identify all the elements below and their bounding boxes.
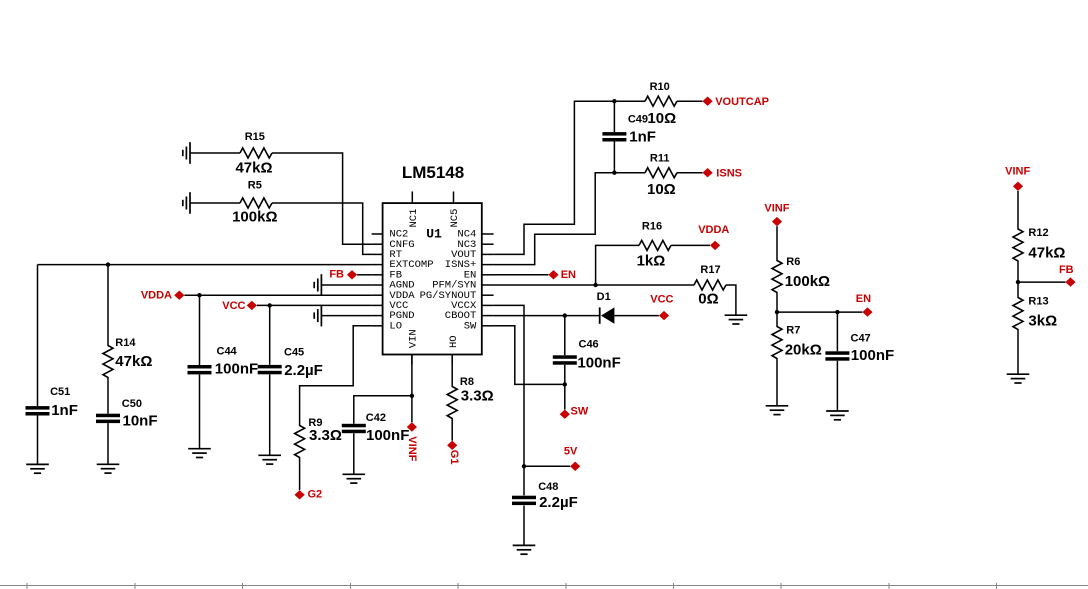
svg-text:R13: R13 [1028, 296, 1048, 308]
wire R12/R13 node to FB flag [1018, 281, 1065, 283]
wire EN pin to flag [494, 274, 549, 276]
svg-text:G2: G2 [308, 489, 323, 501]
capacitor C50 [96, 398, 142, 423]
wire C42 branch [354, 396, 412, 475]
diode D1 [597, 291, 615, 324]
node VINF at R6 [764, 202, 789, 226]
svg-text:C47: C47 [851, 332, 871, 344]
node VINF at R12 [1005, 166, 1030, 191]
wire LO to R9/G2 [300, 326, 372, 490]
resistor R7 [772, 325, 800, 359]
wire VINF/R6/R7 branch [776, 226, 778, 405]
svg-text:R10: R10 [650, 81, 670, 93]
ground at R17 [725, 315, 748, 324]
pin FB [372, 269, 402, 281]
capacitor C47 [825, 332, 870, 360]
wire C49 branch [613, 101, 615, 173]
resistor R10 [645, 81, 677, 106]
wire HO to R8/G1 [451, 355, 453, 441]
wire EXTCOMP net [38, 264, 372, 266]
ground under C50 [97, 464, 120, 473]
capacitor C48 [512, 481, 558, 505]
wire SW net [494, 326, 565, 410]
svg-text:0Ω: 0Ω [698, 291, 718, 308]
pin PGND [372, 310, 415, 322]
svg-text:LO: LO [389, 320, 402, 332]
svg-text:R14: R14 [115, 337, 136, 349]
pin AGND [372, 280, 415, 292]
svg-text:R12: R12 [1028, 227, 1048, 239]
pin VOUT [451, 249, 494, 261]
pin LO [372, 320, 402, 332]
pin EXTCOMP [372, 259, 434, 271]
svg-text:47kΩ: 47kΩ [115, 353, 152, 370]
ground at R5 [183, 192, 190, 214]
svg-text:FB: FB [1059, 264, 1074, 276]
svg-text:FB: FB [329, 269, 344, 281]
svg-text:3.3Ω: 3.3Ω [461, 387, 494, 404]
node FB flag right [1059, 264, 1076, 287]
node VCC flag left [222, 300, 257, 312]
svg-text:VDDA: VDDA [141, 289, 172, 301]
wire C45 branch [269, 305, 271, 455]
svg-text:5V: 5V [564, 445, 578, 457]
svg-text:10nF: 10nF [123, 413, 158, 430]
svg-text:R16: R16 [642, 221, 662, 233]
node VDDA flag left [141, 289, 185, 301]
svg-text:100kΩ: 100kΩ [232, 208, 277, 225]
capacitor C45 [258, 347, 304, 375]
svg-text:100nF: 100nF [366, 427, 409, 444]
svg-text:VCC: VCC [650, 294, 673, 306]
wire R15 to CNFG [190, 153, 372, 244]
wire C51 branch [37, 265, 39, 465]
svg-text:U1: U1 [426, 227, 442, 242]
node EN flag right [856, 293, 873, 317]
ground at R15 [183, 142, 190, 164]
svg-text:47kΩ: 47kΩ [1028, 244, 1065, 261]
resistor R8 [447, 376, 474, 418]
pin NC4 [457, 229, 493, 241]
pin VCC [372, 300, 409, 312]
pin VCCX [451, 300, 494, 312]
svg-text:C44: C44 [217, 346, 238, 358]
wire R7 node to EN flag [777, 311, 862, 313]
capacitor C44 [188, 346, 238, 375]
node G1 [447, 441, 460, 465]
svg-text:10Ω: 10Ω [647, 181, 676, 198]
svg-text:20kΩ: 20kΩ [785, 342, 822, 359]
svg-text:VOUTCAP: VOUTCAP [715, 96, 769, 108]
wire VOUT to R10 [494, 101, 703, 254]
svg-text:VDDA: VDDA [698, 224, 729, 236]
svg-text:R8: R8 [460, 376, 474, 388]
node SW [560, 406, 589, 419]
resistor R13 [1013, 296, 1049, 330]
capacitor C51 [26, 386, 71, 415]
node EN flag at U1 [548, 269, 576, 281]
svg-text:ISNS: ISNS [716, 168, 742, 180]
svg-text:3.3Ω: 3.3Ω [309, 427, 342, 444]
wire VDDA net [184, 294, 371, 296]
svg-text:EN: EN [856, 293, 871, 305]
junction ISNS/R11/C49 [612, 171, 616, 175]
junction VOUT/R10/C49 [612, 99, 616, 103]
svg-text:VINF: VINF [406, 436, 418, 461]
ground under C42 [343, 474, 366, 483]
junction C47/EN [835, 310, 839, 314]
svg-text:R11: R11 [650, 152, 670, 164]
wire PGND pin to ground [321, 315, 371, 317]
svg-text:10Ω: 10Ω [647, 110, 676, 127]
ground at PGND [314, 305, 321, 327]
svg-text:100nF: 100nF [851, 347, 894, 364]
pin SW [464, 320, 494, 332]
wire C47 branch [836, 312, 838, 411]
junction VDDA/C44 [197, 293, 201, 297]
pin HO [448, 335, 460, 364]
resistor R11 [645, 152, 677, 177]
junction VCC/C45 [268, 303, 272, 307]
svg-text:C45: C45 [284, 347, 304, 359]
svg-text:C48: C48 [538, 481, 558, 493]
svg-text:NC1: NC1 [408, 209, 420, 228]
svg-text:100nF: 100nF [215, 361, 258, 378]
pin ISNS+ [445, 259, 494, 271]
svg-text:D1: D1 [597, 291, 611, 303]
pin CNFG [372, 239, 415, 251]
wire VCC net [257, 304, 372, 306]
capacitor C46 [553, 339, 599, 365]
svg-text:R7: R7 [786, 325, 800, 337]
pin CBOOT [445, 310, 494, 322]
pin VIN [407, 329, 419, 364]
wire AGND pin to ground [321, 284, 371, 286]
wire C46 branch [564, 316, 566, 385]
junction EXTCOMP/R14 [106, 262, 110, 266]
svg-text:R5: R5 [248, 179, 262, 191]
ground under C51 [26, 464, 49, 473]
junction R6/R7/EN [775, 310, 779, 314]
wire VCCX to 5V/C48 [494, 305, 570, 545]
resistor R15 [240, 131, 272, 158]
node VOUTCAP [703, 96, 769, 108]
svg-text:C42: C42 [366, 412, 386, 424]
node 5V [564, 445, 580, 471]
svg-text:VCC: VCC [222, 300, 245, 312]
ground under C47 [826, 411, 849, 420]
wire FB pin to flag [357, 274, 372, 276]
svg-text:NC5: NC5 [449, 209, 461, 228]
ground at AGND [314, 274, 321, 296]
ground under C48 [513, 545, 536, 554]
svg-text:1kΩ: 1kΩ [637, 252, 666, 269]
svg-text:VINF: VINF [764, 202, 789, 214]
svg-text:C51: C51 [50, 386, 70, 398]
wire PFM/SYN to R17 [494, 285, 736, 315]
node VINF under VIN [406, 422, 418, 461]
svg-text:SW: SW [464, 320, 477, 332]
resistor R6 [772, 256, 800, 293]
resistor R9 [295, 417, 323, 458]
svg-text:2.2µF: 2.2µF [284, 362, 323, 379]
node FB flag at U1 [329, 269, 357, 281]
node VCC flag at D1 [650, 294, 673, 321]
svg-text:G1: G1 [448, 450, 460, 465]
pin PG/SYNOUT [420, 290, 494, 302]
ground under R13 [1007, 374, 1030, 383]
wire VIN to VINF flag [411, 355, 413, 423]
pin RT [372, 249, 402, 261]
svg-text:100nF: 100nF [577, 354, 620, 371]
pin NC1 [408, 192, 420, 228]
wire CBOOT to D1 [494, 315, 659, 317]
svg-text:3kΩ: 3kΩ [1028, 313, 1057, 330]
wire VINF/R12 branch [1017, 191, 1019, 374]
capacitor C42 [342, 412, 386, 433]
wire C44 branch [199, 295, 201, 449]
ground under R7 [766, 406, 789, 415]
pin NC5 [449, 192, 461, 228]
junction VCCX/C48/5V [522, 464, 526, 468]
pin VDDA [372, 290, 416, 302]
svg-text:R6: R6 [786, 256, 800, 268]
junction R16/PFM [593, 283, 597, 287]
svg-text:2.2µF: 2.2µF [539, 494, 578, 511]
junction CBOOT/C46 [563, 313, 567, 317]
resistor R16 [639, 221, 671, 251]
resistor R12 [1013, 227, 1049, 261]
node ISNS [703, 168, 742, 180]
ground under C44 [188, 449, 211, 458]
pin NC2 [372, 229, 409, 241]
svg-text:R15: R15 [245, 131, 265, 143]
svg-text:HO: HO [448, 335, 460, 348]
svg-text:SW: SW [571, 406, 589, 418]
capacitor C49 [602, 114, 648, 142]
wire R5 to RT [190, 203, 372, 254]
svg-text:C49: C49 [628, 114, 648, 126]
svg-text:EN: EN [561, 269, 576, 281]
svg-text:LM5148: LM5148 [402, 163, 464, 182]
resistor R14 [103, 337, 136, 378]
wire R14/C50 branch [107, 265, 109, 465]
svg-text:1nF: 1nF [629, 129, 656, 146]
wire ISNS+ to R11 [494, 173, 703, 265]
svg-text:1nF: 1nF [51, 402, 78, 419]
svg-text:VINF: VINF [1005, 166, 1030, 178]
svg-text:R17: R17 [700, 264, 720, 276]
junction C46/SW [563, 382, 567, 386]
ground under C45 [258, 455, 281, 464]
svg-text:C46: C46 [579, 339, 599, 351]
resistor R5 [240, 179, 272, 208]
svg-text:100kΩ: 100kΩ [785, 273, 830, 290]
pin NC3 [457, 239, 493, 251]
junction R12/R13/FB [1016, 280, 1020, 284]
junction VIN/C42 [410, 394, 414, 398]
pin PFM/SYN [432, 280, 493, 292]
IC U1 LM5148 body [383, 163, 482, 354]
svg-text:47kΩ: 47kΩ [235, 159, 272, 176]
pin EN [464, 269, 494, 281]
svg-text:VIN: VIN [407, 329, 419, 348]
svg-text:C50: C50 [122, 398, 142, 410]
resistor R17 [694, 264, 726, 290]
node VDDA flag at R16 [698, 224, 729, 250]
node G2 [295, 489, 323, 501]
wire R16 branch [596, 245, 710, 285]
